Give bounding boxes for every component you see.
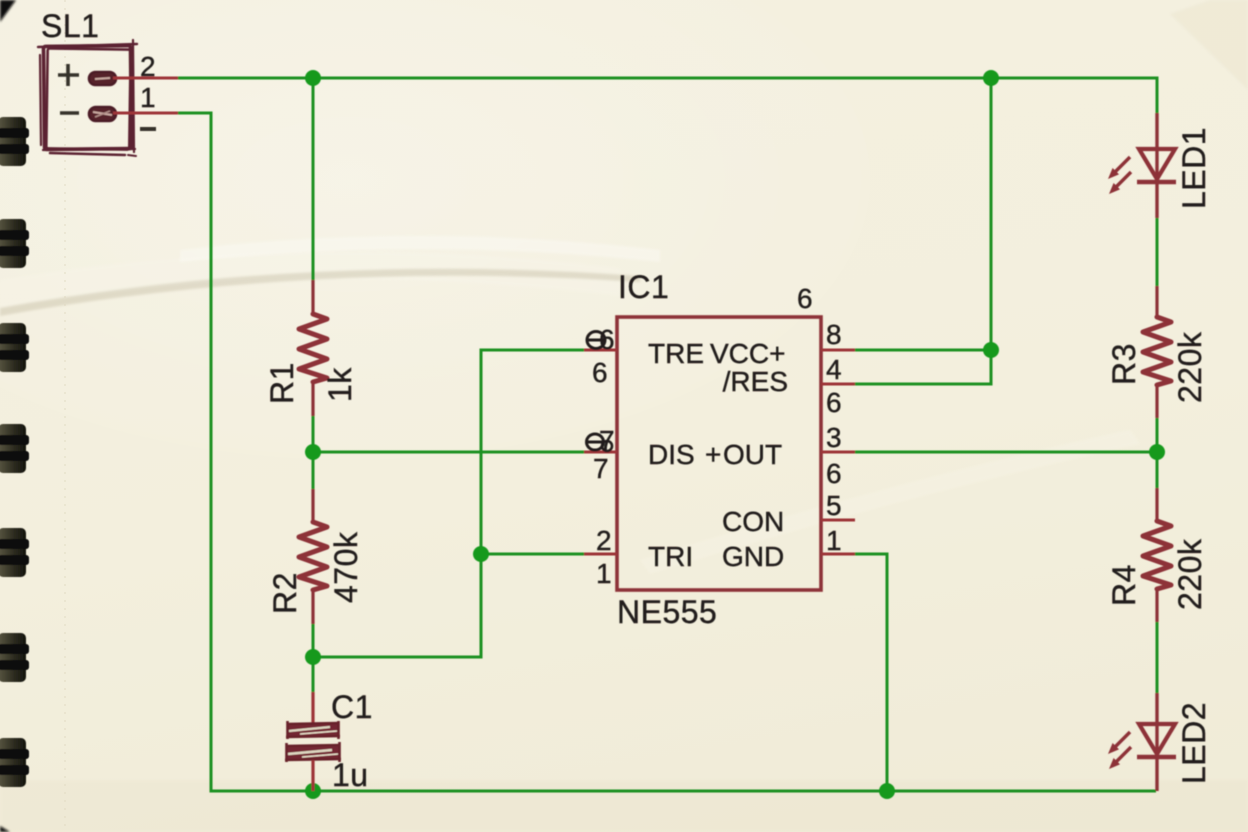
wire: R1 bottom to R2 top through DIS node <box>312 415 315 489</box>
wire: supply column from top rail <box>990 78 993 350</box>
perforation line <box>64 0 66 832</box>
svg-text:R2: R2 <box>267 572 303 614</box>
svg-text:3: 3 <box>826 422 842 453</box>
wire: DIS node to pin 7 <box>313 451 584 454</box>
junction dot: top rail / supply column <box>983 70 999 86</box>
wire: R3 bottom to OUT node to R4 top <box>1156 417 1159 488</box>
svg-text:IC1: IC1 <box>618 269 669 305</box>
svg-text:GND: GND <box>722 541 784 572</box>
pin name GND <box>722 541 784 572</box>
net label 6 above IC <box>797 283 813 314</box>
SL1 label <box>41 8 99 44</box>
pin number 3 <box>826 422 842 453</box>
spiral hole 5 <box>0 528 29 577</box>
svg-text:220k: 220k <box>1172 331 1208 403</box>
svg-text:NE555: NE555 <box>617 594 717 630</box>
bottom-left corner tear <box>0 826 10 832</box>
SL1 minus mark inside <box>60 111 79 115</box>
SL1 pin number 1 <box>140 82 156 113</box>
pin name TRE <box>648 338 704 369</box>
svg-text:1: 1 <box>826 525 842 556</box>
pin stub CON (5) <box>821 519 855 522</box>
svg-text:1u: 1u <box>332 757 369 793</box>
svg-text:6: 6 <box>592 357 608 388</box>
svg-text:2: 2 <box>140 51 156 82</box>
pin stub DIS (7) <box>584 451 617 454</box>
wire: GND return from SL1 pin1 down left side and along bottom <box>177 113 1156 791</box>
svg-text:8: 8 <box>826 319 842 350</box>
pin number 2 above TRI pin <box>596 525 612 556</box>
LED1 label <box>1176 127 1212 209</box>
IC1 value NE555 <box>617 594 717 630</box>
svg-text:LED1: LED1 <box>1176 127 1212 209</box>
wire: R2 bottom to C1 node <box>312 623 315 692</box>
svg-text:+: + <box>705 439 721 470</box>
wire: LED1 cathode to R3 <box>1156 218 1159 287</box>
junction dot: C1 on bottom rail <box>305 783 321 799</box>
SL1 pin 2 contact <box>89 72 116 85</box>
wire: OUT pin 3 to LED column <box>855 451 1157 454</box>
pin stub GND (1) <box>821 553 855 556</box>
wire: TRE/TRI tie line from C1 node <box>313 350 584 657</box>
IC1 NE555 body <box>617 317 821 590</box>
pin number 7 below DIS pin <box>593 453 609 484</box>
pin number 1 <box>826 525 842 556</box>
SL1 plus mark <box>58 64 79 86</box>
svg-text:1: 1 <box>596 558 612 589</box>
junction dot: R1/R2/DIS node <box>305 444 321 460</box>
IC1 label <box>618 269 669 305</box>
spiral hole 7 <box>0 738 29 787</box>
svg-text:C1: C1 <box>331 689 373 725</box>
wire: V+ top rail from SL1 pin2 to LED1 column <box>177 78 1157 113</box>
pin name /RES <box>723 366 788 397</box>
svg-text:R1: R1 <box>264 362 300 404</box>
wire: TRI branch to pin 2 <box>481 553 584 556</box>
svg-text:CON: CON <box>722 506 784 537</box>
R3 value 220k <box>1172 331 1208 403</box>
pin name +OUT (+ in red) <box>705 439 782 470</box>
svg-text:LED2: LED2 <box>1176 702 1212 784</box>
pin number 5 <box>826 490 842 521</box>
R3 label <box>1106 343 1142 385</box>
pin number 6 below TRE pin <box>592 357 608 388</box>
R4 label <box>1106 564 1142 606</box>
resistor R4 <box>1143 488 1171 622</box>
svg-text:220k: 220k <box>1172 538 1208 610</box>
C1 label <box>331 689 373 725</box>
SL1 pin 1 stub <box>113 112 178 115</box>
C1 value 1u <box>332 757 369 793</box>
pin stub OUT (3) <box>821 451 855 454</box>
svg-text:/RES: /RES <box>723 366 788 397</box>
wire: VCC pin 8 to supply column <box>855 349 991 352</box>
R4 value 220k <box>1172 538 1208 610</box>
svg-text:6: 6 <box>826 387 842 418</box>
svg-text:2: 2 <box>596 525 612 556</box>
spiral hole 4 <box>0 424 29 473</box>
LED2 <box>1108 693 1176 791</box>
svg-text:SL1: SL1 <box>41 8 99 44</box>
spiral hole 2 <box>0 219 29 268</box>
top-left corner tear <box>0 0 16 22</box>
SL1 pin 1 contact <box>89 107 116 121</box>
spiral hole 1 <box>0 117 29 166</box>
overlapped net/pin marks above TRE pin <box>587 324 615 355</box>
SL1 pin 2 stub <box>113 77 178 80</box>
svg-text:4: 4 <box>826 354 842 385</box>
overlapped net/pin marks above DIS pin <box>587 425 615 456</box>
R1 label <box>264 362 300 404</box>
spiral hole 6 <box>0 633 29 682</box>
LED2 label <box>1176 702 1212 784</box>
wire: R4 bottom to LED2 anode <box>1156 621 1159 693</box>
resistor R1 <box>299 280 327 416</box>
svg-text:7: 7 <box>593 453 609 484</box>
svg-text:OUT: OUT <box>723 439 782 470</box>
svg-text:1k: 1k <box>322 367 358 402</box>
resistor R3 <box>1143 286 1171 418</box>
junction dot: VCC / RES supply node <box>983 342 999 358</box>
junction dot: top rail / R1 <box>305 70 321 86</box>
svg-text:VCC+: VCC+ <box>710 338 785 369</box>
junction dot: OUT / R3 / R4 node <box>1149 444 1165 460</box>
capacitor C1 <box>285 692 341 791</box>
pin name DIS <box>648 439 695 470</box>
pin stub TRE (6) <box>584 349 617 352</box>
junction dot: IC GND on bottom rail <box>879 783 895 799</box>
pin number 8 <box>826 319 842 350</box>
svg-text:R3: R3 <box>1106 343 1142 385</box>
wire: top rail drop to R1 <box>312 78 315 281</box>
wire: /RES pin 4 loop to supply column <box>855 350 991 384</box>
connector SL1 sketchy box <box>38 40 137 156</box>
svg-text:R4: R4 <box>1106 564 1142 606</box>
svg-text:1: 1 <box>140 82 156 113</box>
svg-text:TRI: TRI <box>648 541 693 572</box>
pin name TRI <box>648 541 693 572</box>
svg-text:DIS: DIS <box>648 439 695 470</box>
pin stub VCC+ (8) <box>821 349 855 352</box>
svg-text:5: 5 <box>826 490 842 521</box>
wire: GND pin 1 down to bottom rail <box>855 554 887 791</box>
SL1 pin number 2 <box>140 51 156 82</box>
pin number 4 <box>826 354 842 385</box>
net number 6 below pin 4 <box>826 387 842 418</box>
resistor R2 <box>299 489 327 624</box>
R2 label <box>267 572 303 614</box>
pin stub TRI (2) <box>584 553 617 556</box>
net number 6 below pin 3 <box>826 458 842 489</box>
svg-text:470k: 470k <box>328 531 364 603</box>
svg-text:TRE: TRE <box>648 338 704 369</box>
LED1 <box>1108 113 1176 218</box>
svg-text:6: 6 <box>797 283 813 314</box>
pin name CON <box>722 506 784 537</box>
pin number 1 below TRI pin <box>596 558 612 589</box>
R2 value 470k <box>328 531 364 603</box>
svg-text:6: 6 <box>826 458 842 489</box>
junction dot: R2/C1 node <box>305 649 321 665</box>
pin stub /RES (4) <box>821 383 855 386</box>
R1 value 1k <box>322 367 358 402</box>
notebook spiral binding <box>0 0 29 832</box>
pin name VCC+ <box>710 338 785 369</box>
svg-text:6: 6 <box>599 324 615 355</box>
SL1 minus polarity label <box>140 127 156 131</box>
spiral hole 3 <box>0 323 29 372</box>
junction dot: TRI tap <box>473 546 489 562</box>
